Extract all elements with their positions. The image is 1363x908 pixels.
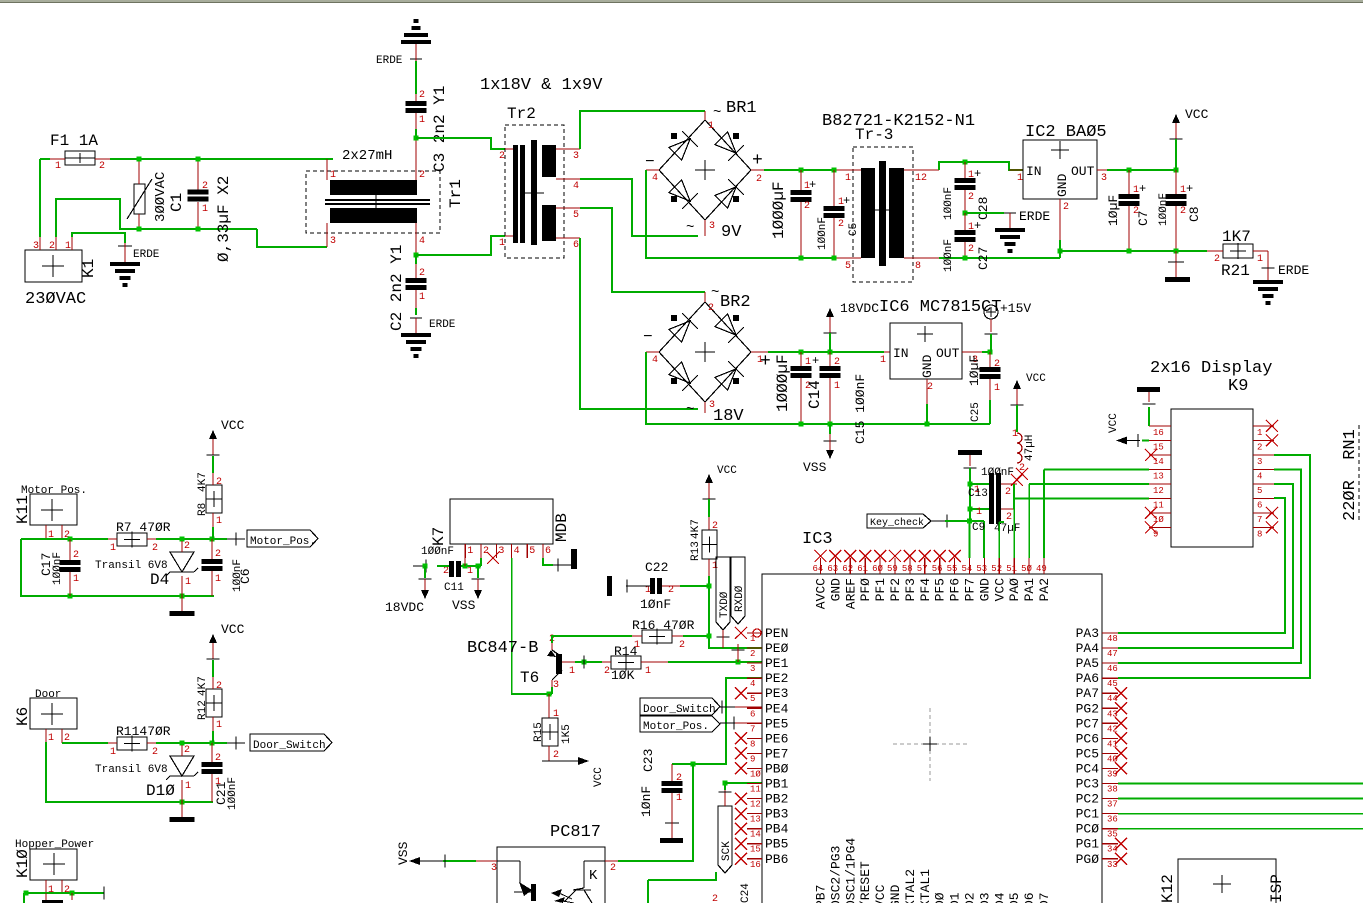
svg-text:+15V: +15V xyxy=(1000,301,1031,316)
svg-text:1: 1 xyxy=(419,292,425,303)
svg-text:54: 54 xyxy=(962,564,973,574)
svg-text:PA7: PA7 xyxy=(1076,686,1099,701)
svg-text:VCC: VCC xyxy=(873,884,888,903)
svg-text:K7: K7 xyxy=(430,527,448,546)
svg-text:IC3: IC3 xyxy=(802,530,833,549)
svg-text:3: 3 xyxy=(33,241,39,252)
svg-text:1: 1 xyxy=(976,507,982,518)
svg-text:4: 4 xyxy=(750,679,755,689)
svg-text:K11: K11 xyxy=(14,495,32,524)
svg-text:PE7: PE7 xyxy=(765,746,788,761)
svg-text:IN: IN xyxy=(893,346,909,361)
svg-text:PC817: PC817 xyxy=(550,823,601,842)
svg-text:4K7: 4K7 xyxy=(690,519,702,539)
svg-text:PE3: PE3 xyxy=(765,686,788,701)
svg-text:C7: C7 xyxy=(1136,210,1151,226)
svg-text:2: 2 xyxy=(483,546,489,557)
svg-text:PBØ: PBØ xyxy=(765,761,789,776)
svg-text:PE4: PE4 xyxy=(765,701,789,716)
svg-text:53: 53 xyxy=(976,564,987,574)
svg-text:4Ø: 4Ø xyxy=(1107,754,1118,764)
svg-text:38: 38 xyxy=(1107,785,1118,795)
svg-text:1: 1 xyxy=(634,640,640,651)
svg-text:SCK: SCK xyxy=(721,841,733,861)
svg-text:1ØK: 1ØK xyxy=(611,668,635,683)
svg-text:Door: Door xyxy=(35,689,61,701)
svg-text:TXDØ: TXDØ xyxy=(719,591,731,618)
svg-text:2x16 Display: 2x16 Display xyxy=(1150,359,1272,378)
svg-text:1: 1 xyxy=(467,566,473,577)
svg-text:2: 2 xyxy=(708,303,714,314)
svg-text:XTAL1: XTAL1 xyxy=(918,869,933,903)
svg-text:ERDE: ERDE xyxy=(1019,209,1050,224)
svg-text:2: 2 xyxy=(712,894,718,903)
svg-text:/RESET: /RESET xyxy=(858,861,873,903)
svg-text:Ø,33µF X2: Ø,33µF X2 xyxy=(215,176,233,262)
svg-text:ERDE: ERDE xyxy=(1278,263,1309,278)
svg-text:C14: C14 xyxy=(806,380,824,409)
svg-text:D4: D4 xyxy=(150,571,169,589)
svg-text:BC847-B: BC847-B xyxy=(467,639,538,658)
svg-text:GND: GND xyxy=(888,884,903,903)
svg-text:63: 63 xyxy=(827,564,838,574)
svg-text:14: 14 xyxy=(750,830,761,840)
svg-text:PB2: PB2 xyxy=(765,792,788,807)
svg-text:C22: C22 xyxy=(645,560,668,575)
svg-text:1: 1 xyxy=(110,543,116,554)
svg-text:PB6: PB6 xyxy=(765,852,788,867)
svg-text:PB1: PB1 xyxy=(765,777,789,792)
svg-text:PA3: PA3 xyxy=(1076,626,1099,641)
svg-text:1ØØØµF: 1ØØØµF xyxy=(774,354,792,412)
svg-text:5: 5 xyxy=(529,546,535,557)
svg-text:12: 12 xyxy=(750,800,761,810)
svg-text:2: 2 xyxy=(968,192,974,203)
svg-text:1: 1 xyxy=(110,747,116,758)
svg-text:R13: R13 xyxy=(690,541,702,561)
svg-text:PC1: PC1 xyxy=(1076,807,1100,822)
svg-text:2: 2 xyxy=(756,174,762,185)
svg-text:K6: K6 xyxy=(14,707,32,726)
svg-text:1: 1 xyxy=(419,115,425,126)
svg-text:R15: R15 xyxy=(533,722,545,742)
svg-text:VCC: VCC xyxy=(992,578,1007,602)
svg-text:2: 2 xyxy=(184,541,190,552)
svg-text:1K7: 1K7 xyxy=(1222,228,1251,246)
svg-text:PEN: PEN xyxy=(765,626,788,641)
svg-text:59: 59 xyxy=(887,564,898,574)
svg-text:1: 1 xyxy=(215,574,221,585)
svg-text:1ØØnF: 1ØØnF xyxy=(943,239,955,272)
svg-text:11: 11 xyxy=(750,785,761,795)
svg-text:1ØØØµF: 1ØØØµF xyxy=(770,181,788,239)
svg-text:8: 8 xyxy=(750,739,755,749)
svg-text:PB5: PB5 xyxy=(765,837,788,852)
svg-text:IN: IN xyxy=(1026,164,1042,179)
svg-text:PEØ: PEØ xyxy=(765,641,789,656)
svg-text:1: 1 xyxy=(708,121,714,132)
svg-text:ERDE: ERDE xyxy=(429,319,456,331)
svg-text:PAØ: PAØ xyxy=(1007,578,1022,602)
svg-text:1: 1 xyxy=(712,561,718,572)
svg-text:2: 2 xyxy=(1005,487,1011,498)
svg-text:~: ~ xyxy=(686,220,694,236)
svg-text:F1 1A: F1 1A xyxy=(50,132,98,150)
svg-text:MDB: MDB xyxy=(553,513,571,542)
svg-text:1Ø: 1Ø xyxy=(750,769,761,779)
svg-text:8: 8 xyxy=(915,261,921,272)
svg-text:5: 5 xyxy=(1257,486,1262,496)
svg-text:K: K xyxy=(589,868,598,884)
svg-text:2: 2 xyxy=(152,747,158,758)
svg-text:1: 1 xyxy=(645,585,651,596)
svg-text:3: 3 xyxy=(491,863,497,874)
svg-text:T6: T6 xyxy=(520,669,539,687)
svg-text:OUT: OUT xyxy=(1071,164,1095,179)
svg-text:PC4: PC4 xyxy=(1076,761,1100,776)
svg-text:12: 12 xyxy=(915,173,927,184)
svg-text:PG1: PG1 xyxy=(1076,837,1100,852)
svg-text:OSC1/1PG4: OSC1/1PG4 xyxy=(843,838,858,903)
svg-text:VSS: VSS xyxy=(396,841,411,865)
svg-text:1: 1 xyxy=(1257,254,1263,265)
svg-text:2: 2 xyxy=(1257,443,1262,453)
svg-text:RXDØ: RXDØ xyxy=(734,585,746,612)
svg-text:15: 15 xyxy=(750,845,761,855)
svg-text:ISP: ISP xyxy=(1268,874,1286,903)
svg-text:PA2: PA2 xyxy=(1037,578,1052,601)
svg-text:2: 2 xyxy=(419,268,425,279)
svg-text:4: 4 xyxy=(514,546,520,557)
svg-text:PF3: PF3 xyxy=(903,578,918,601)
svg-text:VCC: VCC xyxy=(221,418,245,433)
svg-text:~: ~ xyxy=(686,402,694,418)
svg-text:4: 4 xyxy=(652,173,658,184)
svg-text:5Ø: 5Ø xyxy=(1021,564,1032,574)
svg-text:D2: D2 xyxy=(963,892,978,903)
svg-text:PB7: PB7 xyxy=(814,885,829,903)
svg-text:52: 52 xyxy=(991,564,1002,574)
svg-text:C5: C5 xyxy=(848,223,860,236)
svg-text:PE5: PE5 xyxy=(765,716,788,731)
svg-text:2: 2 xyxy=(1063,202,1069,213)
svg-text:C1: C1 xyxy=(168,193,186,212)
svg-text:VCC: VCC xyxy=(1026,373,1046,385)
svg-text:1ØØnF: 1ØØnF xyxy=(52,552,64,585)
svg-text:3: 3 xyxy=(750,664,755,674)
svg-text:C25: C25 xyxy=(970,402,982,422)
svg-text:ERDE: ERDE xyxy=(133,249,160,261)
svg-text:VCC: VCC xyxy=(1108,413,1120,433)
svg-text:2: 2 xyxy=(419,90,425,101)
svg-text:1: 1 xyxy=(1017,173,1023,184)
svg-text:2x27mH: 2x27mH xyxy=(342,148,392,164)
svg-text:16: 16 xyxy=(750,860,761,870)
svg-text:GND: GND xyxy=(1055,173,1070,197)
svg-text:DØ: DØ xyxy=(933,892,948,903)
svg-text:1ØµF: 1ØµF xyxy=(967,355,982,386)
svg-text:GND: GND xyxy=(828,578,843,602)
svg-text:C8: C8 xyxy=(1187,206,1202,222)
svg-text:1: 1 xyxy=(185,781,191,792)
svg-text:PG2: PG2 xyxy=(1076,701,1099,716)
svg-text:1ØnF: 1ØnF xyxy=(640,597,671,612)
svg-text:2: 2 xyxy=(64,885,70,896)
svg-text:D7: D7 xyxy=(1037,892,1052,903)
svg-text:+: + xyxy=(809,178,816,192)
svg-text:3ØØVAC: 3ØØVAC xyxy=(153,172,169,222)
svg-text:GND: GND xyxy=(920,354,935,378)
svg-text:C2 2n2 Y1: C2 2n2 Y1 xyxy=(388,245,406,331)
svg-text:47: 47 xyxy=(1107,649,1118,659)
svg-text:58: 58 xyxy=(902,564,913,574)
svg-text:VCC: VCC xyxy=(593,767,605,787)
svg-text:13: 13 xyxy=(1153,472,1164,482)
svg-text:Tr1: Tr1 xyxy=(447,179,465,208)
svg-text:K1Ø: K1Ø xyxy=(14,849,32,878)
svg-text:VCC: VCC xyxy=(221,622,245,637)
svg-text:1: 1 xyxy=(676,793,682,804)
svg-text:1: 1 xyxy=(65,241,71,252)
svg-text:~: ~ xyxy=(711,285,719,301)
svg-text:2: 2 xyxy=(679,640,685,651)
svg-text:K9: K9 xyxy=(1228,377,1248,396)
svg-text:1: 1 xyxy=(499,238,505,249)
svg-text:C15 1ØØnF: C15 1ØØnF xyxy=(853,374,868,444)
svg-text:2: 2 xyxy=(927,382,933,393)
svg-text:PGØ: PGØ xyxy=(1076,852,1100,867)
svg-text:C11: C11 xyxy=(444,582,464,594)
svg-text:22ØR RN1: 22ØR RN1 xyxy=(1341,429,1360,521)
svg-text:1: 1 xyxy=(202,204,208,215)
svg-text:PA5: PA5 xyxy=(1076,656,1099,671)
svg-text:BR2: BR2 xyxy=(720,293,751,312)
svg-text:D1: D1 xyxy=(948,892,963,903)
svg-text:2: 2 xyxy=(152,543,158,554)
svg-text:2: 2 xyxy=(216,681,222,692)
svg-text:9: 9 xyxy=(750,754,755,764)
svg-text:2: 2 xyxy=(838,219,844,230)
svg-text:PA6: PA6 xyxy=(1076,671,1099,686)
svg-text:1ØµF: 1ØµF xyxy=(1106,195,1121,226)
svg-text:−: − xyxy=(643,328,653,346)
svg-text:2: 2 xyxy=(216,477,222,488)
svg-text:R8: R8 xyxy=(197,503,209,516)
svg-text:6Ø: 6Ø xyxy=(872,564,883,574)
svg-text:PF6: PF6 xyxy=(948,578,963,601)
svg-text:2: 2 xyxy=(553,750,559,761)
svg-text:61: 61 xyxy=(857,564,868,574)
svg-text:PA1: PA1 xyxy=(1022,578,1037,602)
svg-text:D3: D3 xyxy=(977,892,992,903)
svg-text:6: 6 xyxy=(573,240,579,251)
svg-text:1: 1 xyxy=(48,733,54,744)
svg-text:C24: C24 xyxy=(740,883,752,903)
svg-text:6: 6 xyxy=(750,709,755,719)
svg-text:2: 2 xyxy=(750,649,755,659)
svg-text:4K7: 4K7 xyxy=(197,472,209,492)
svg-text:1K5: 1K5 xyxy=(561,724,573,744)
svg-text:2: 2 xyxy=(604,666,610,677)
svg-text:PE2: PE2 xyxy=(765,671,788,686)
svg-text:1: 1 xyxy=(55,161,61,172)
svg-text:VSS: VSS xyxy=(452,598,476,613)
svg-text:R16 47ØR: R16 47ØR xyxy=(632,618,695,633)
svg-text:C27: C27 xyxy=(976,247,991,270)
svg-text:2: 2 xyxy=(804,201,810,212)
svg-text:2: 2 xyxy=(1214,254,1220,265)
svg-text:3: 3 xyxy=(498,546,504,557)
svg-text:1ØØnF: 1ØØnF xyxy=(817,217,829,250)
svg-text:47µF: 47µF xyxy=(994,523,1020,535)
svg-text:18VDC: 18VDC xyxy=(840,301,879,316)
svg-text:55: 55 xyxy=(947,564,958,574)
svg-text:PF7: PF7 xyxy=(963,578,978,601)
svg-text:2: 2 xyxy=(1006,512,1012,523)
svg-text:48: 48 xyxy=(1107,634,1118,644)
svg-text:1: 1 xyxy=(185,577,191,588)
svg-text:1: 1 xyxy=(994,383,1000,394)
svg-text:B82721-K2152-N1: B82721-K2152-N1 xyxy=(822,112,975,131)
svg-text:3: 3 xyxy=(573,151,579,162)
svg-text:1: 1 xyxy=(880,355,886,366)
svg-text:57: 57 xyxy=(917,564,928,574)
svg-text:R21: R21 xyxy=(1221,262,1250,280)
svg-text:5: 5 xyxy=(573,210,579,221)
svg-text:1: 1 xyxy=(330,170,336,181)
svg-text:R12: R12 xyxy=(197,700,209,720)
svg-text:2: 2 xyxy=(610,863,616,874)
svg-text:D5: D5 xyxy=(1007,892,1022,903)
svg-text:3: 3 xyxy=(1101,173,1107,184)
svg-text:3: 3 xyxy=(330,236,336,247)
svg-text:39: 39 xyxy=(1107,769,1118,779)
svg-text:D4: D4 xyxy=(992,892,1007,903)
svg-text:13: 13 xyxy=(750,815,761,825)
svg-text:47µH: 47µH xyxy=(1024,435,1036,461)
svg-text:1ØØnF: 1ØØnF xyxy=(943,187,955,220)
svg-text:1: 1 xyxy=(569,666,575,677)
svg-text:Door_Switch: Door_Switch xyxy=(643,704,716,716)
svg-text:Transil 6V8: Transil 6V8 xyxy=(95,764,168,776)
svg-text:4: 4 xyxy=(652,355,658,366)
svg-text:PF1: PF1 xyxy=(873,578,888,602)
svg-text:PE6: PE6 xyxy=(765,731,788,746)
svg-text:PF2: PF2 xyxy=(888,578,903,601)
svg-text:2: 2 xyxy=(499,151,505,162)
svg-text:PF5: PF5 xyxy=(933,578,948,601)
svg-text:PE1: PE1 xyxy=(765,656,789,671)
svg-text:AREF: AREF xyxy=(843,578,858,609)
svg-text:2: 2 xyxy=(215,549,221,560)
svg-text:49: 49 xyxy=(1036,564,1047,574)
svg-text:Motor_Pos.: Motor_Pos. xyxy=(643,721,709,733)
svg-text:~: ~ xyxy=(713,105,721,121)
svg-text:C6: C6 xyxy=(238,568,253,584)
svg-text:1: 1 xyxy=(845,173,851,184)
svg-text:IC6 MC7815CT: IC6 MC7815CT xyxy=(879,298,1001,317)
svg-text:PF4: PF4 xyxy=(918,578,933,602)
svg-text:OUT: OUT xyxy=(936,346,960,361)
svg-text:1: 1 xyxy=(467,546,473,557)
svg-text:1: 1 xyxy=(216,720,222,731)
svg-text:IC2 BAØ5: IC2 BAØ5 xyxy=(1025,123,1107,142)
svg-text:9V: 9V xyxy=(721,223,742,242)
svg-text:46: 46 xyxy=(1107,664,1118,674)
svg-text:K12: K12 xyxy=(1159,874,1177,903)
svg-text:−: − xyxy=(645,153,655,171)
svg-text:Tr-3: Tr-3 xyxy=(855,126,893,144)
svg-text:GND: GND xyxy=(977,578,992,602)
svg-text:+: + xyxy=(812,354,819,368)
svg-text:4K7: 4K7 xyxy=(197,676,209,696)
svg-text:1: 1 xyxy=(645,666,651,677)
svg-text:5: 5 xyxy=(845,261,851,272)
svg-text:2: 2 xyxy=(99,161,105,172)
svg-text:Door_Switch: Door_Switch xyxy=(253,740,326,752)
svg-text:BR1: BR1 xyxy=(726,99,757,118)
svg-text:37: 37 xyxy=(1107,800,1118,810)
svg-text:PC2: PC2 xyxy=(1076,792,1099,807)
svg-text:8: 8 xyxy=(1257,530,1262,540)
svg-text:1x18V & 1x9V: 1x18V & 1x9V xyxy=(480,76,603,95)
svg-text:62: 62 xyxy=(842,564,853,574)
svg-text:K1: K1 xyxy=(80,259,98,278)
svg-text:51: 51 xyxy=(1006,564,1017,574)
svg-text:5: 5 xyxy=(750,694,755,704)
svg-text:6: 6 xyxy=(1257,501,1262,511)
svg-text:VSS: VSS xyxy=(803,460,827,475)
svg-text:3: 3 xyxy=(709,221,715,232)
svg-text:PB4: PB4 xyxy=(765,822,789,837)
svg-text:C23: C23 xyxy=(641,749,656,772)
svg-text:+: + xyxy=(843,194,850,208)
svg-text:AVCC: AVCC xyxy=(814,578,829,609)
svg-text:1ØØnF: 1ØØnF xyxy=(421,546,454,558)
svg-text:7: 7 xyxy=(1257,515,1262,525)
svg-text:2: 2 xyxy=(443,566,449,577)
svg-text:56: 56 xyxy=(932,564,943,574)
svg-text:D6: D6 xyxy=(1022,892,1037,903)
svg-text:+: + xyxy=(1139,182,1146,196)
svg-text:1ØnF: 1ØnF xyxy=(639,786,654,817)
svg-text:1: 1 xyxy=(757,355,763,366)
svg-text:2: 2 xyxy=(668,585,674,596)
svg-text:2: 2 xyxy=(1180,206,1186,217)
svg-text:3: 3 xyxy=(553,680,559,691)
svg-text:1: 1 xyxy=(216,516,222,527)
svg-text:64: 64 xyxy=(813,564,824,574)
svg-text:2: 2 xyxy=(184,745,190,756)
svg-text:VCC: VCC xyxy=(1185,107,1209,122)
svg-text:C28: C28 xyxy=(976,197,991,220)
svg-text:XTAL2: XTAL2 xyxy=(903,869,918,903)
svg-text:Key_check: Key_check xyxy=(870,517,924,529)
svg-text:PCØ: PCØ xyxy=(1076,822,1100,837)
svg-text:18VDC: 18VDC xyxy=(385,600,424,615)
svg-text:23ØVAC: 23ØVAC xyxy=(25,290,86,309)
svg-text:PC5: PC5 xyxy=(1076,746,1099,761)
svg-text:36: 36 xyxy=(1107,815,1118,825)
svg-text:2: 2 xyxy=(968,244,974,255)
svg-text:1: 1 xyxy=(834,381,840,392)
svg-text:3: 3 xyxy=(1257,457,1262,467)
svg-text:D1Ø: D1Ø xyxy=(146,782,175,800)
svg-text:4: 4 xyxy=(419,236,425,247)
svg-text:1: 1 xyxy=(73,574,79,585)
svg-text:PC6: PC6 xyxy=(1076,731,1099,746)
svg-text:PFØ: PFØ xyxy=(858,578,873,602)
